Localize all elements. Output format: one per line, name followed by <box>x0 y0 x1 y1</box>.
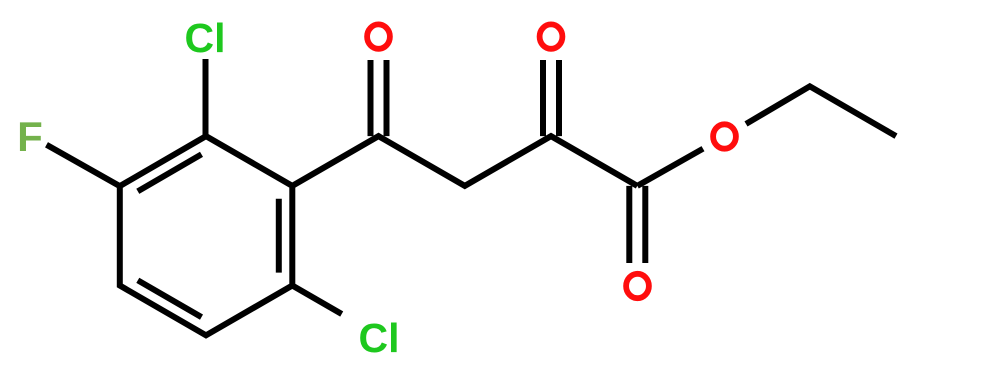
bond Cd to ester O3 <box>637 149 703 186</box>
benzene ring outer edges <box>120 136 292 335</box>
atom label O2 <box>540 24 563 48</box>
atom label O4 <box>626 274 649 298</box>
C=O double bond Cc to O2 <box>540 60 546 136</box>
bonds O3-Ce-Cf ethyl <box>746 86 896 136</box>
atom label O1 (drawn as ring) <box>367 24 390 48</box>
C=O double bond Cd to O4 <box>626 186 632 263</box>
bond v6 to F <box>47 145 120 186</box>
svg-text:F: F <box>17 113 43 160</box>
ring double bond inner line v2-v3 <box>276 199 282 273</box>
chain bonds v2-Ca-Cb-Cc-Cd <box>292 136 637 186</box>
atom label O3 ester <box>713 124 736 148</box>
svg-text:Cl: Cl <box>185 15 226 61</box>
bond v3 to Cl bottom <box>292 286 341 315</box>
ring double bond inner line v4-v5 <box>138 280 202 317</box>
ring double bond inner line v6-v1 <box>138 154 202 191</box>
C=O double bond Ca to O1 <box>368 60 374 136</box>
bond v1 to Cl top <box>203 59 209 136</box>
svg-text:Cl: Cl <box>359 315 400 361</box>
